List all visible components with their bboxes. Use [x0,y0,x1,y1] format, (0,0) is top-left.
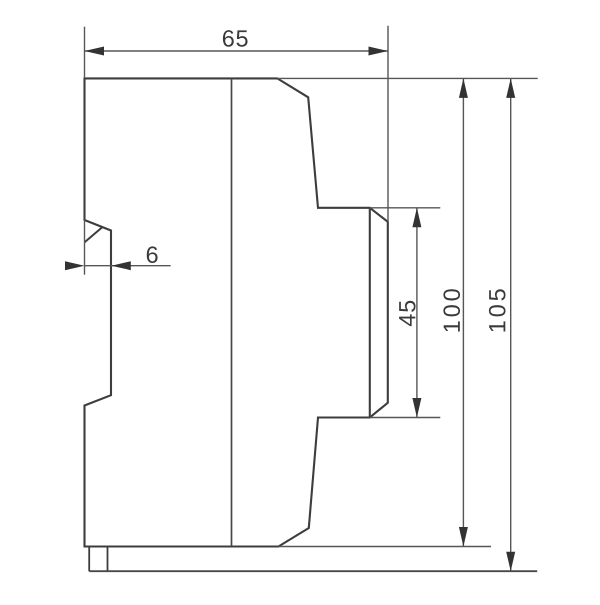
arrowhead 6 right [111,261,131,270]
extension line 45 top [370,207,441,209]
label 65 [223,30,248,47]
extension line right (65) [387,26,389,222]
dimension line 65 [85,50,389,52]
module side profile outline [85,78,388,546]
dimension line 105 [510,78,512,571]
foot tab right edge [107,547,109,572]
dimension line 100 [462,78,464,546]
label 100 [443,289,460,331]
foot tab left edge [88,547,90,572]
arrowhead 100 down [459,527,468,547]
arrowhead 100 up [459,78,468,98]
arrowhead 105 down [506,552,515,572]
label 105 [489,289,506,331]
arrowhead 6 left [65,261,85,270]
rail protrusion inner edge [369,208,371,418]
label 6 [147,246,158,263]
foot bottom plate line [89,570,537,572]
dimension line 6 [85,265,171,267]
extension line top horizontal (100/105) [277,77,537,79]
extension line left top (65) [84,27,86,79]
dimension line 45 [416,208,418,418]
extension line bottom horizontal (100) [279,546,492,548]
housing seam vertical line [231,78,233,546]
clip hook edge [85,227,103,242]
arrowhead 105 up [506,78,515,98]
arrowhead 45 down [412,398,421,418]
arrowhead 45 up [412,208,421,228]
label 45 [399,301,415,326]
arrowhead 65 left [85,47,105,56]
extension line 45 bottom [370,417,441,419]
arrowhead 65 right [369,47,389,56]
extension line left lower (6) [84,220,86,275]
